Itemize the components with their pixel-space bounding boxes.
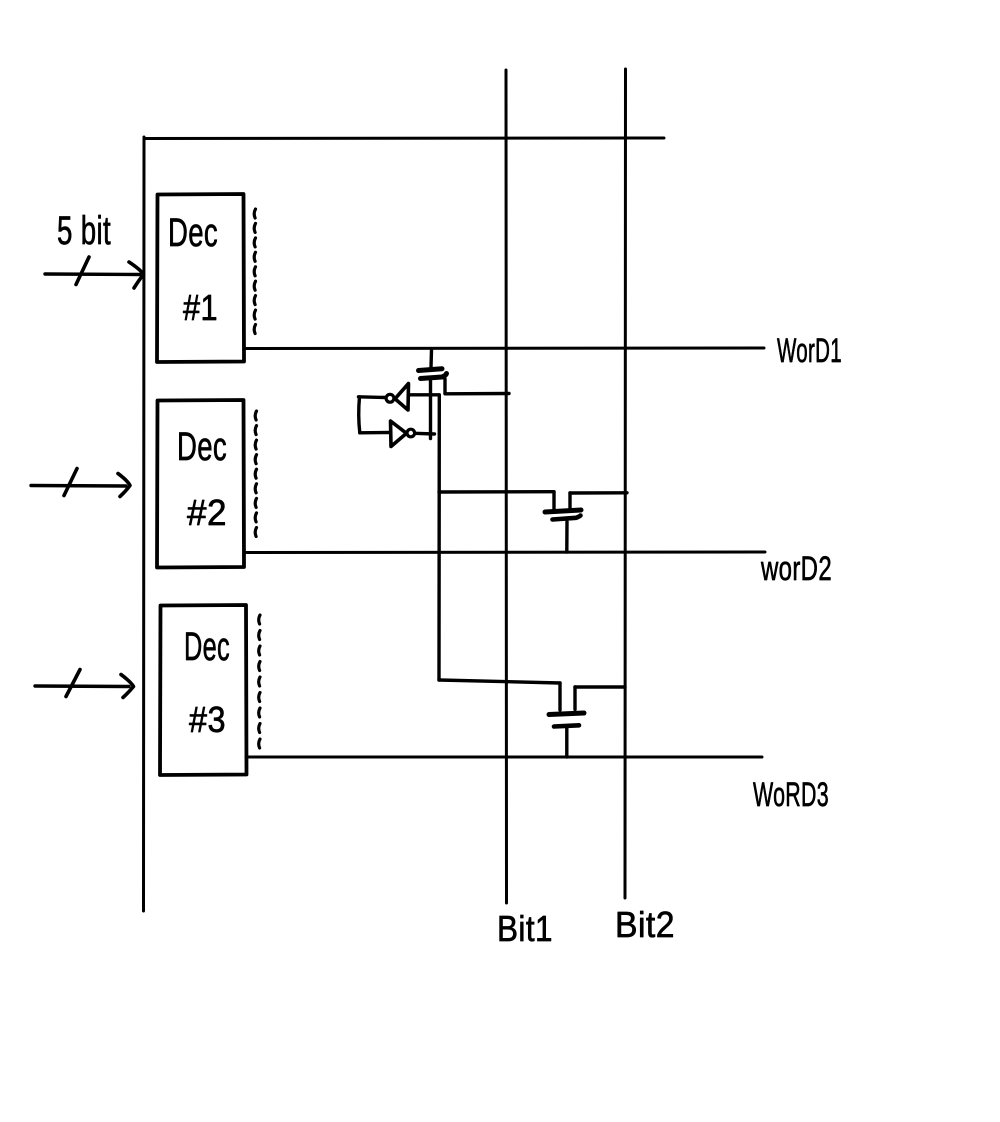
bus arrow into Dec #1	[45, 272, 142, 276]
dashed expansion line (decoder 2 outputs)	[255, 411, 256, 537]
svg-text:5 bit: 5 bit	[57, 209, 111, 253]
transistor M2: right source stub	[568, 493, 571, 510]
wire: storage node vertical (cell column)	[437, 395, 441, 680]
dashed expansion line (decoder 1 outputs)	[254, 209, 255, 334]
transistor M3: left drain stub	[558, 683, 561, 710]
bus width slash (arrow 1)	[76, 257, 89, 285]
wire: row3 node to M3	[439, 680, 560, 683]
transistor M2: channel bar	[545, 510, 581, 512]
decoder box Dec #1	[157, 194, 244, 362]
svg-text:Dec: Dec	[168, 211, 218, 255]
wire: left address bus wall	[142, 137, 146, 911]
inverter U2 output bubble	[407, 429, 415, 437]
transistor M1: channel bar	[421, 374, 447, 379]
wire: M3 source to Bit2	[575, 685, 625, 688]
transistor M1: left source leg (storage node)	[429, 380, 432, 439]
bus arrow into Dec #2	[31, 484, 126, 488]
transistor M3: channel bar	[549, 713, 584, 715]
word line WORD2	[244, 551, 765, 555]
transistor M2: gate stem to WORD2	[565, 522, 569, 553]
wire: M1 drain to Bit1	[445, 392, 509, 396]
transistor M2: gate bar	[553, 516, 581, 520]
transistor M3: gate stem to WORD3	[565, 728, 568, 757]
transistor M1: gate bar	[419, 369, 443, 371]
wire: latch left rail	[359, 397, 360, 433]
svg-text:Dec: Dec	[184, 625, 230, 669]
inverter U1 output bubble	[386, 394, 394, 402]
inverter U2 (points right)	[391, 421, 407, 447]
svg-text:#3: #3	[189, 699, 226, 740]
wire: latch bottom rail	[360, 431, 390, 435]
bus arrow into Dec #3	[35, 684, 129, 688]
wire: U1 input from storage node	[409, 393, 439, 396]
decoder box Dec #2	[157, 400, 244, 568]
svg-text:WoRD3: WoRD3	[753, 776, 829, 814]
decoder box Dec #3	[160, 605, 247, 775]
svg-text:worD2: worD2	[760, 550, 832, 588]
svg-text:#1: #1	[183, 287, 218, 328]
transistor M3: gate bar	[554, 725, 579, 726]
bus width slash (arrow 2)	[64, 469, 77, 496]
bus width slash (arrow 3)	[66, 670, 80, 697]
svg-text:Dec: Dec	[177, 425, 227, 469]
wire: top rail	[144, 137, 664, 141]
inverter U1 (points left)	[395, 384, 409, 411]
wire: U2 output to storage node	[415, 432, 435, 436]
word line WORD1	[244, 347, 764, 351]
bit line Bit2	[624, 69, 628, 898]
transistor M2: left drain stub	[552, 492, 555, 510]
bit line Bit1	[505, 70, 509, 903]
transistor M3: right source stub	[573, 687, 576, 710]
wire: M2 source to Bit2	[570, 491, 627, 495]
word line WORD3	[246, 756, 762, 759]
svg-text:WorD1: WorD1	[777, 332, 842, 370]
wire: U1 output to left rail	[359, 395, 386, 399]
svg-text:#2: #2	[187, 492, 227, 533]
dashed expansion line (decoder 3 outputs)	[259, 615, 260, 748]
transistor M1: gate stem from WORD1	[429, 350, 433, 367]
wire: row2 node to M2	[439, 490, 554, 494]
svg-text:Bit2: Bit2	[615, 904, 675, 945]
transistor M1: right drain leg	[443, 379, 446, 394]
svg-text:Bit1: Bit1	[497, 908, 553, 949]
